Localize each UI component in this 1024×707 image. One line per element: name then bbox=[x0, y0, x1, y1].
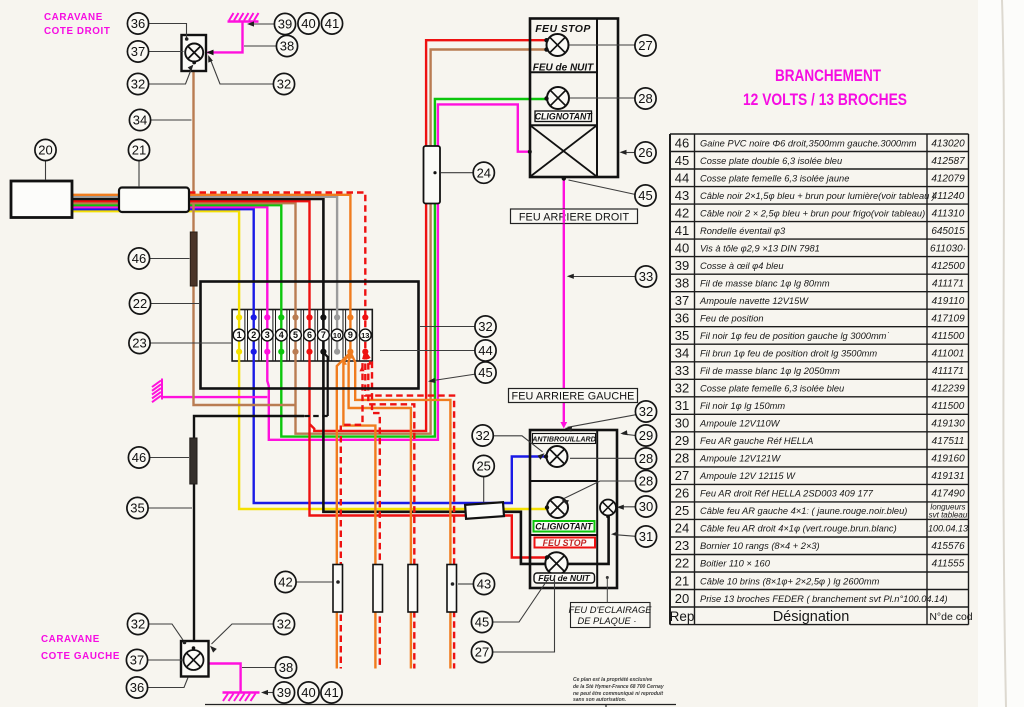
leader 38 bbox=[244, 45, 277, 47]
svg-text:COTE DROIT: COTE DROIT bbox=[44, 26, 110, 37]
X-box brouillard droit bbox=[531, 126, 596, 176]
parts list table bbox=[670, 134, 969, 625]
title block top edge (cut off) bbox=[205, 704, 676, 706]
svg-text:28: 28 bbox=[675, 451, 689, 466]
label antibrouillard bbox=[533, 434, 596, 444]
svg-text:411171: 411171 bbox=[932, 278, 964, 289]
callout 21 cable 10 brins bbox=[128, 139, 149, 160]
svg-text:sans son autorisation.: sans son autorisation. bbox=[573, 697, 626, 703]
svg-text:Fil noir 1φ lg 150mm: Fil noir 1φ lg 150mm bbox=[700, 401, 785, 411]
gaine cable 21 sheath bbox=[119, 188, 189, 213]
wire orange branch B to tube no2 bbox=[343, 353, 375, 669]
svg-text:37: 37 bbox=[130, 653, 144, 668]
callout 41 rondelle gauche bbox=[321, 682, 342, 703]
lamp clignotant gauche bbox=[547, 497, 568, 518]
callout 43 cable lumiere bbox=[473, 573, 494, 594]
callout 33 fil de masse blanc bbox=[635, 266, 656, 287]
svg-text:Feu AR droit Réf HELLA 2S: Feu AR droit Réf HELLA 2SD003 409 177 bbox=[700, 489, 874, 499]
svg-text:100.04.13: 100.04.13 bbox=[928, 524, 968, 534]
svg-text:ANTIBROUILLARD: ANTIBROUILLARD bbox=[531, 436, 595, 444]
svg-text:39: 39 bbox=[277, 685, 291, 700]
svg-text:32: 32 bbox=[475, 428, 489, 443]
callout 20 prise 13 broches bbox=[35, 139, 56, 160]
wire red dashed branch to tube no1 bbox=[341, 353, 365, 669]
svg-text:38: 38 bbox=[280, 39, 294, 54]
callout 46 gaine PVC droit bbox=[128, 248, 149, 269]
leader 23 bbox=[150, 342, 232, 344]
leader 43 bbox=[458, 583, 474, 585]
wire yellow pin1: prise to bornier to clignotant gauche bbox=[72, 211, 547, 509]
svg-text:29: 29 bbox=[639, 428, 653, 443]
svg-text:Fil de masse blanc 1φ lg 80mm: Fil de masse blanc 1φ lg 80mm bbox=[700, 278, 830, 288]
callout 40 vis gauche bbox=[298, 682, 319, 703]
svg-text:Ampoule 12V110W: Ampoule 12V110W bbox=[699, 419, 781, 429]
callout 32 cosse feu gauche bbox=[635, 401, 656, 422]
callout 38 fil de masse bbox=[276, 35, 297, 56]
callout 46 gaine PVC gauche bbox=[128, 447, 149, 468]
svg-text:Câble feu AR droit 4×1φ (vert.: Câble feu AR droit 4×1φ (vert.rouge.brun… bbox=[700, 524, 897, 534]
callout 36 feu position gauche bbox=[126, 677, 147, 698]
svg-text:CARAVANE: CARAVANE bbox=[41, 634, 100, 645]
svg-text:45: 45 bbox=[638, 188, 652, 203]
prise 13 broches (20) bbox=[11, 181, 72, 218]
svg-text:4: 4 bbox=[279, 330, 284, 340]
svg-text:Prise 13 broches FEDER ( bra: Prise 13 broches FEDER ( branchement svt… bbox=[700, 594, 948, 604]
svg-text:46: 46 bbox=[132, 251, 146, 266]
svg-text:2: 2 bbox=[251, 330, 256, 340]
svg-text:FEU ARRIERE GAUCHE: FEU ARRIERE GAUCHE bbox=[512, 391, 635, 403]
callout 28 ampoule antibrouillard bbox=[635, 448, 656, 469]
wire magenta masse: feu AR droit to feu AR gauche bbox=[563, 179, 565, 425]
label box FEU D'ECLAIRAGE DE PLAQUE bbox=[569, 576, 653, 628]
leader 39 bbox=[250, 23, 275, 25]
svg-text:27: 27 bbox=[475, 645, 489, 660]
svg-text:32: 32 bbox=[131, 77, 145, 92]
callout 44 cosse jaune bbox=[475, 340, 496, 361]
wire orange branch D to tube no4 bbox=[351, 353, 451, 669]
leader 27 bas bbox=[493, 577, 555, 653]
callout 32 cosse gauche bbox=[127, 613, 148, 634]
svg-text:645015: 645015 bbox=[931, 226, 965, 237]
leader 28 antibrouillard bbox=[570, 457, 636, 459]
svg-text:35: 35 bbox=[130, 501, 144, 516]
callout 32 cosse droite bbox=[273, 73, 294, 94]
callout 28 ampoule clignotant gauche bbox=[635, 470, 656, 491]
svg-text:25: 25 bbox=[675, 503, 689, 518]
wire red pin6: prise to bornier to feu stop gauche bbox=[72, 201, 547, 557]
wire green pin4: prise to bornier to clignotant droit bbox=[72, 99, 546, 437]
svg-text:FEU D'ECLAIRAGE: FEU D'ECLAIRAGE bbox=[569, 605, 653, 615]
leader 44 bbox=[380, 350, 475, 352]
svg-text:29: 29 bbox=[675, 433, 689, 448]
callout 28 ampoule clignotant droit bbox=[635, 88, 656, 109]
svg-text:36: 36 bbox=[675, 311, 689, 326]
leader 25 bbox=[483, 477, 485, 503]
leader 28 droit bbox=[570, 97, 636, 99]
callout 22 boitier bbox=[129, 293, 150, 314]
callout 39 cosse a oeil bbox=[274, 13, 295, 34]
svg-text:Câble feu AR gauche 4×1ː ( jau: Câble feu AR gauche 4×1ː ( jaune.rouge.n… bbox=[700, 506, 907, 516]
leader 21 bbox=[138, 161, 140, 188]
wire red dashed branch to tube no2 bbox=[366, 353, 380, 669]
svg-text:22: 22 bbox=[133, 296, 147, 311]
svg-text:21: 21 bbox=[675, 573, 689, 588]
leader 32 bas1 bbox=[149, 624, 184, 640]
svg-text:415576: 415576 bbox=[931, 541, 965, 552]
svg-text:Ce plan est la propriété exclu: Ce plan est la propriété exclusive bbox=[573, 677, 652, 683]
feu de position gauche lamp (36/37) bbox=[181, 641, 209, 677]
gaine PVC 46 droit (sheath on brown wire) bbox=[190, 232, 197, 286]
svg-text:Câble noir 2 × 2,5φ bleu + b: Câble noir 2 × 2,5φ bleu + brun pour fri… bbox=[700, 208, 925, 218]
svg-text:412079: 412079 bbox=[931, 173, 965, 184]
svg-text:30: 30 bbox=[675, 416, 689, 431]
svg-text:20: 20 bbox=[38, 143, 52, 158]
svg-text:20: 20 bbox=[675, 591, 689, 606]
title BRANCHEMENT 12 VOLTS / 13 BROCHES bbox=[743, 67, 907, 109]
svg-text:Boitier 110 × 160: Boitier 110 × 160 bbox=[700, 559, 771, 569]
svg-text:Ampoule 12V 12115 W: Ampoule 12V 12115 W bbox=[699, 471, 796, 481]
leader 20 bbox=[45, 161, 47, 181]
callout 34 fil brun bbox=[129, 109, 150, 130]
terminal dots on bornier bbox=[236, 314, 368, 355]
ground (masse) magenta left bbox=[152, 379, 162, 403]
svg-text:Cosse plate femelle 6,3 isol: Cosse plate femelle 6,3 isolée bleu bbox=[700, 384, 844, 394]
svg-text:37: 37 bbox=[675, 293, 689, 308]
svg-text:40: 40 bbox=[301, 685, 315, 700]
svg-text:44: 44 bbox=[675, 170, 689, 185]
leader 42 bbox=[296, 581, 333, 583]
wire brown 34 branch: feu de position droit bbox=[194, 71, 296, 406]
callout 40 vis a tole bbox=[298, 13, 319, 34]
svg-text:412587: 412587 bbox=[931, 156, 965, 167]
wire blue pin2: prise to bornier to antibrouillard bbox=[72, 209, 546, 503]
svg-text:25: 25 bbox=[476, 459, 490, 474]
svg-text:31: 31 bbox=[675, 398, 689, 413]
callout 29 feu AR gauche bbox=[635, 425, 656, 446]
svg-text:7: 7 bbox=[321, 330, 326, 340]
tube 24 (cable feu AR droit) bbox=[424, 146, 441, 204]
svg-text:419110: 419110 bbox=[932, 296, 965, 307]
svg-text:28: 28 bbox=[639, 474, 653, 489]
svg-text:CLIGNOTANT: CLIGNOTANT bbox=[535, 112, 593, 122]
gaine PVC 46 gauche (sheath on black wire) bbox=[190, 438, 197, 484]
svg-text:N°de cod: N°de cod bbox=[929, 611, 972, 623]
leader 35 bbox=[148, 507, 192, 509]
leader 24 bbox=[441, 172, 474, 174]
leader 32 antibrouillard bbox=[493, 436, 543, 452]
wire magenta: position gauche lamp to bottom ground bbox=[209, 664, 241, 692]
svg-text:Ampoule 12V121W: Ampoule 12V121W bbox=[699, 454, 781, 464]
leader 46 gauche bbox=[150, 457, 190, 459]
feu arriere gauche unit (29) bbox=[530, 430, 617, 588]
svg-text:32: 32 bbox=[639, 404, 653, 419]
tube 42/43 no1 bbox=[333, 565, 343, 613]
svg-text:svt tableau: svt tableau bbox=[929, 511, 968, 520]
svg-text:CARAVANE: CARAVANE bbox=[44, 12, 103, 23]
leader 31 bbox=[614, 535, 636, 537]
svg-text:36: 36 bbox=[130, 680, 144, 695]
svg-text:28: 28 bbox=[639, 451, 653, 466]
svg-text:45: 45 bbox=[475, 615, 489, 630]
svg-text:Gaine PVC noire Φ6 droit,3500: Gaine PVC noire Φ6 droit,3500mm gauche.3… bbox=[700, 138, 917, 148]
svg-text:419130: 419130 bbox=[931, 419, 965, 430]
wire black pin7: prise to bornier to eclairage plaque bbox=[72, 199, 609, 564]
svg-text:419131: 419131 bbox=[931, 471, 964, 482]
wire magenta: position droit lamp to top ground bbox=[208, 23, 243, 53]
leader 46 droit bbox=[150, 258, 190, 260]
leader 28 clignotant gauche bbox=[564, 481, 636, 499]
svg-text:46: 46 bbox=[132, 450, 146, 465]
label clignotant gauche bbox=[534, 521, 595, 532]
wire magenta masse branch to ground bbox=[162, 396, 267, 398]
arrow marks at bornier pin 9 fan bbox=[347, 353, 353, 359]
callout 37 ampoule gauche bbox=[126, 649, 147, 670]
svg-text:23: 23 bbox=[675, 538, 689, 553]
svg-text:41: 41 bbox=[675, 223, 689, 238]
callout 45 cosse double bbox=[475, 362, 496, 383]
feu de position droit lamp (36/37) bbox=[182, 35, 214, 71]
svg-text:Bornier 10 rangs (8×4 + 2×3): Bornier 10 rangs (8×4 + 2×3) bbox=[700, 541, 820, 551]
leader 36 bas bbox=[148, 678, 189, 688]
wire magenta pin3: prise to bornier, masse gauche, to feu AR droit bbox=[72, 104, 529, 439]
lamp antibrouillard bbox=[547, 446, 568, 467]
leader 29 bbox=[623, 434, 636, 436]
callout 23 bornier bbox=[129, 332, 150, 353]
callout 32 cosse bornier bbox=[475, 316, 496, 337]
svg-text:411171: 411171 bbox=[932, 366, 964, 377]
svg-text:6: 6 bbox=[307, 330, 312, 340]
svg-text:46: 46 bbox=[675, 135, 689, 150]
callout 38 fil masse gauche bbox=[275, 657, 296, 678]
svg-text:417109: 417109 bbox=[931, 314, 965, 325]
lamp feu stop / nuit gauche bbox=[545, 552, 567, 574]
callout 24 cable feu AR droit bbox=[473, 162, 494, 183]
svg-text:Rondelle éventail φ3: Rondelle éventail φ3 bbox=[700, 226, 786, 236]
callout 45 cosse double gauche bbox=[471, 611, 492, 632]
svg-text:FEU ARRIERE DROIT: FEU ARRIERE DROIT bbox=[519, 211, 630, 223]
svg-text:411310: 411310 bbox=[932, 208, 965, 219]
svg-text:de la Sté Hymer-France 68 700: de la Sté Hymer-France 68 700 Cernay bbox=[573, 684, 664, 690]
svg-text:13: 13 bbox=[361, 331, 369, 340]
callout 32 cosse antibrouillard bbox=[472, 425, 493, 446]
svg-text:40: 40 bbox=[301, 16, 315, 31]
svg-text:38: 38 bbox=[675, 275, 689, 290]
svg-text:FEU de NUIT: FEU de NUIT bbox=[533, 63, 594, 74]
svg-text:Câble 10 brins (8×1φ+ 2×2,5φ: Câble 10 brins (8×1φ+ 2×2,5φ ) lg 2600mm bbox=[700, 576, 880, 586]
callout 41 rondelle bbox=[321, 13, 342, 34]
svg-text:42: 42 bbox=[675, 205, 689, 220]
svg-text:Feu de position: Feu de position bbox=[700, 314, 764, 324]
svg-text:28: 28 bbox=[638, 91, 652, 106]
svg-text:5: 5 bbox=[293, 330, 298, 340]
svg-text:411500: 411500 bbox=[932, 401, 965, 412]
svg-text:Vis à tôle φ2,9 ×13 DIN 7981: Vis à tôle φ2,9 ×13 DIN 7981 bbox=[700, 243, 820, 253]
leader 32 right bbox=[210, 59, 274, 85]
svg-text:37: 37 bbox=[131, 44, 145, 59]
svg-text:Feu AR gauche Réf HELLA: Feu AR gauche Réf HELLA bbox=[700, 436, 813, 446]
svg-text:10: 10 bbox=[333, 331, 341, 340]
ground (masse) magenta bottom bbox=[223, 693, 260, 702]
svg-text:DE PLAQUE ·: DE PLAQUE · bbox=[578, 616, 637, 626]
callout 45 cosse double droit bbox=[635, 185, 656, 206]
wire brown pin5: prise to bornier, to feu de nuit droit bbox=[72, 50, 546, 434]
svg-text:BRANCHEMENT: BRANCHEMENT bbox=[775, 67, 881, 85]
svg-text:34: 34 bbox=[675, 346, 689, 361]
label clignotant bbox=[535, 111, 592, 122]
label feu de nuit gauche bbox=[534, 573, 595, 583]
svg-text:41: 41 bbox=[324, 685, 338, 700]
svg-text:Cosse à œil φ4 bleu: Cosse à œil φ4 bleu bbox=[700, 261, 784, 271]
leader 34 bbox=[151, 119, 192, 121]
svg-text:31: 31 bbox=[639, 529, 653, 544]
callout 32 cosse bbox=[127, 73, 148, 94]
svg-text:38: 38 bbox=[279, 660, 293, 675]
leader 30 bbox=[619, 506, 636, 508]
boitier 22 enclosure bbox=[201, 282, 419, 389]
callout 25 cable feu AR gauche bbox=[473, 455, 494, 476]
wire red branch: feu stop droit bbox=[310, 40, 546, 431]
connector 25 (cable feu AR gauche) bbox=[465, 502, 504, 519]
svg-text:611030·: 611030· bbox=[930, 243, 966, 254]
wire gray pin10: prise to bornier bbox=[72, 197, 337, 352]
svg-text:30: 30 bbox=[639, 499, 653, 514]
lamp eclairage de plaque bbox=[600, 500, 616, 516]
label CARAVANE COTE GAUCHE bbox=[41, 634, 120, 662]
svg-text:33: 33 bbox=[675, 363, 689, 378]
svg-text:411240: 411240 bbox=[932, 191, 965, 202]
wire red dashed branch to tube no4 bbox=[365, 353, 454, 669]
svg-text:Câble noir 2×1,5φ bleu + brun: Câble noir 2×1,5φ bleu + brun pour lumiè… bbox=[700, 191, 935, 201]
label box FEU ARRIERE GAUCHE bbox=[509, 389, 638, 403]
leader 32 bornier bbox=[420, 326, 475, 328]
svg-text:FEU STOP: FEU STOP bbox=[535, 23, 591, 35]
leader 45 bas bbox=[493, 578, 550, 623]
svg-text:FEU STOP: FEU STOP bbox=[543, 538, 587, 548]
svg-text:44: 44 bbox=[478, 343, 492, 358]
svg-text:Ampoule navette 12V15W: Ampoule navette 12V15W bbox=[699, 296, 809, 306]
svg-text:40: 40 bbox=[675, 240, 689, 255]
callout 26 feu AR droit bbox=[635, 142, 656, 163]
svg-text:35: 35 bbox=[675, 328, 689, 343]
label CARAVANE COTE DROIT bbox=[44, 12, 110, 37]
svg-text:27: 27 bbox=[675, 468, 689, 483]
svg-text:412500: 412500 bbox=[931, 261, 965, 272]
leader 22 bbox=[151, 303, 201, 305]
leader 26 bbox=[622, 152, 635, 154]
leader 37 bbox=[149, 51, 184, 53]
svg-text:Fil noir 1φ feu de position g: Fil noir 1φ feu de position gauche lg 30… bbox=[700, 331, 890, 341]
masse wire over label bbox=[563, 209, 565, 224]
callout 35 fil noir bbox=[127, 497, 148, 518]
svg-text:32: 32 bbox=[478, 319, 492, 334]
svg-text:Désignation: Désignation bbox=[773, 609, 850, 625]
callout 32 cosse gauche 2 bbox=[273, 613, 294, 634]
svg-text:39: 39 bbox=[278, 17, 292, 32]
callout 42 cable frigo bbox=[275, 571, 296, 592]
leader 45 bornier bbox=[430, 374, 476, 381]
svg-text:411555: 411555 bbox=[932, 559, 965, 570]
leader 45 droit bbox=[569, 180, 636, 195]
svg-text:36: 36 bbox=[131, 16, 145, 31]
wire red dashed branch to tube no3 bbox=[366, 353, 415, 669]
leader 27 droit bbox=[569, 44, 635, 46]
label feu stop gauche bbox=[535, 538, 596, 548]
tube no2 bbox=[373, 565, 383, 613]
svg-text:CLIGNOTANT: CLIGNOTANT bbox=[535, 522, 593, 532]
svg-text:22: 22 bbox=[675, 556, 689, 571]
svg-text:Rep: Rep bbox=[670, 609, 695, 624]
svg-text:Fil de masse blanc 1φ lg 2: Fil de masse blanc 1φ lg 2050mm bbox=[700, 366, 840, 376]
svg-text:411001: 411001 bbox=[932, 349, 965, 360]
svg-text:32: 32 bbox=[131, 617, 145, 632]
tube 43 no4 bbox=[447, 565, 457, 613]
callout 37 ampoule navette bbox=[127, 41, 148, 62]
ground (masse) magenta top right bbox=[228, 13, 259, 22]
svg-text:417490: 417490 bbox=[931, 489, 965, 500]
svg-text:24: 24 bbox=[675, 521, 689, 536]
svg-text:Cosse plate double 6,3 isolé: Cosse plate double 6,3 isolée bleu bbox=[700, 156, 842, 166]
leader 37 bas bbox=[148, 659, 184, 661]
leader 39 bas bbox=[263, 692, 274, 694]
wire orange branch A to tube 42 no1 bbox=[337, 353, 350, 669]
leader 32 left bbox=[149, 69, 192, 85]
svg-text:32: 32 bbox=[277, 77, 291, 92]
leader 38 bas bbox=[242, 667, 276, 669]
svg-text:Cosse plate femelle 6,3 isol: Cosse plate femelle 6,3 isolée jaune bbox=[700, 173, 849, 183]
svg-text:411500: 411500 bbox=[932, 331, 965, 342]
svg-text:Fil brun 1φ feu de position: Fil brun 1φ feu de position droit lg 350… bbox=[700, 349, 877, 359]
lamp feu stop droit bbox=[547, 34, 569, 56]
svg-text:413020: 413020 bbox=[931, 138, 965, 149]
svg-text:41: 41 bbox=[325, 16, 339, 31]
svg-text:412239: 412239 bbox=[931, 384, 965, 395]
svg-text:45: 45 bbox=[675, 153, 689, 168]
callout 39 cosse a oeil gauche bbox=[273, 682, 294, 703]
callout 31 fil noir plaque bbox=[635, 526, 656, 547]
lamp clignotant droit bbox=[547, 87, 569, 109]
svg-text:419160: 419160 bbox=[931, 454, 965, 465]
callout 30 ampoule plaque bbox=[635, 496, 656, 517]
svg-text:27: 27 bbox=[638, 38, 652, 53]
svg-text:26: 26 bbox=[675, 486, 689, 501]
svg-text:3: 3 bbox=[265, 330, 270, 340]
svg-text:12 VOLTS / 13 BROCHES: 12 VOLTS / 13 BROCHES bbox=[743, 91, 907, 109]
leader 32 feu gauche bbox=[568, 415, 638, 428]
svg-text:26: 26 bbox=[638, 145, 652, 160]
svg-text:COTE GAUCHE: COTE GAUCHE bbox=[41, 651, 120, 662]
leader 32 bas2 bbox=[212, 624, 274, 644]
leader 33 bbox=[570, 276, 636, 278]
label box FEU ARRIERE DROIT bbox=[511, 209, 638, 224]
wire black 35 branch: feu de position gauche bbox=[323, 353, 327, 417]
arrow marks at bornier pin 13 fan bbox=[362, 353, 368, 359]
callout 27 ampoule stop gauche bbox=[471, 641, 492, 662]
copyright note text block bbox=[573, 677, 664, 703]
svg-text:32: 32 bbox=[277, 617, 291, 632]
svg-text:43: 43 bbox=[675, 188, 689, 203]
svg-text:34: 34 bbox=[133, 113, 147, 128]
terminal number circles 1-13 bbox=[233, 329, 371, 341]
wire orange branch C to tube no3 bbox=[349, 353, 411, 669]
svg-text:24: 24 bbox=[477, 165, 491, 180]
svg-text:32: 32 bbox=[675, 381, 689, 396]
svg-text:33: 33 bbox=[639, 269, 653, 284]
wire orange pin9: prise to bornier bbox=[72, 195, 350, 352]
leader 36 bbox=[149, 24, 187, 38]
tube no3 bbox=[408, 565, 418, 613]
wire red dashed pin13: prise to bornier bbox=[189, 193, 365, 352]
terminal strip body (bornier 23) bbox=[232, 310, 372, 362]
